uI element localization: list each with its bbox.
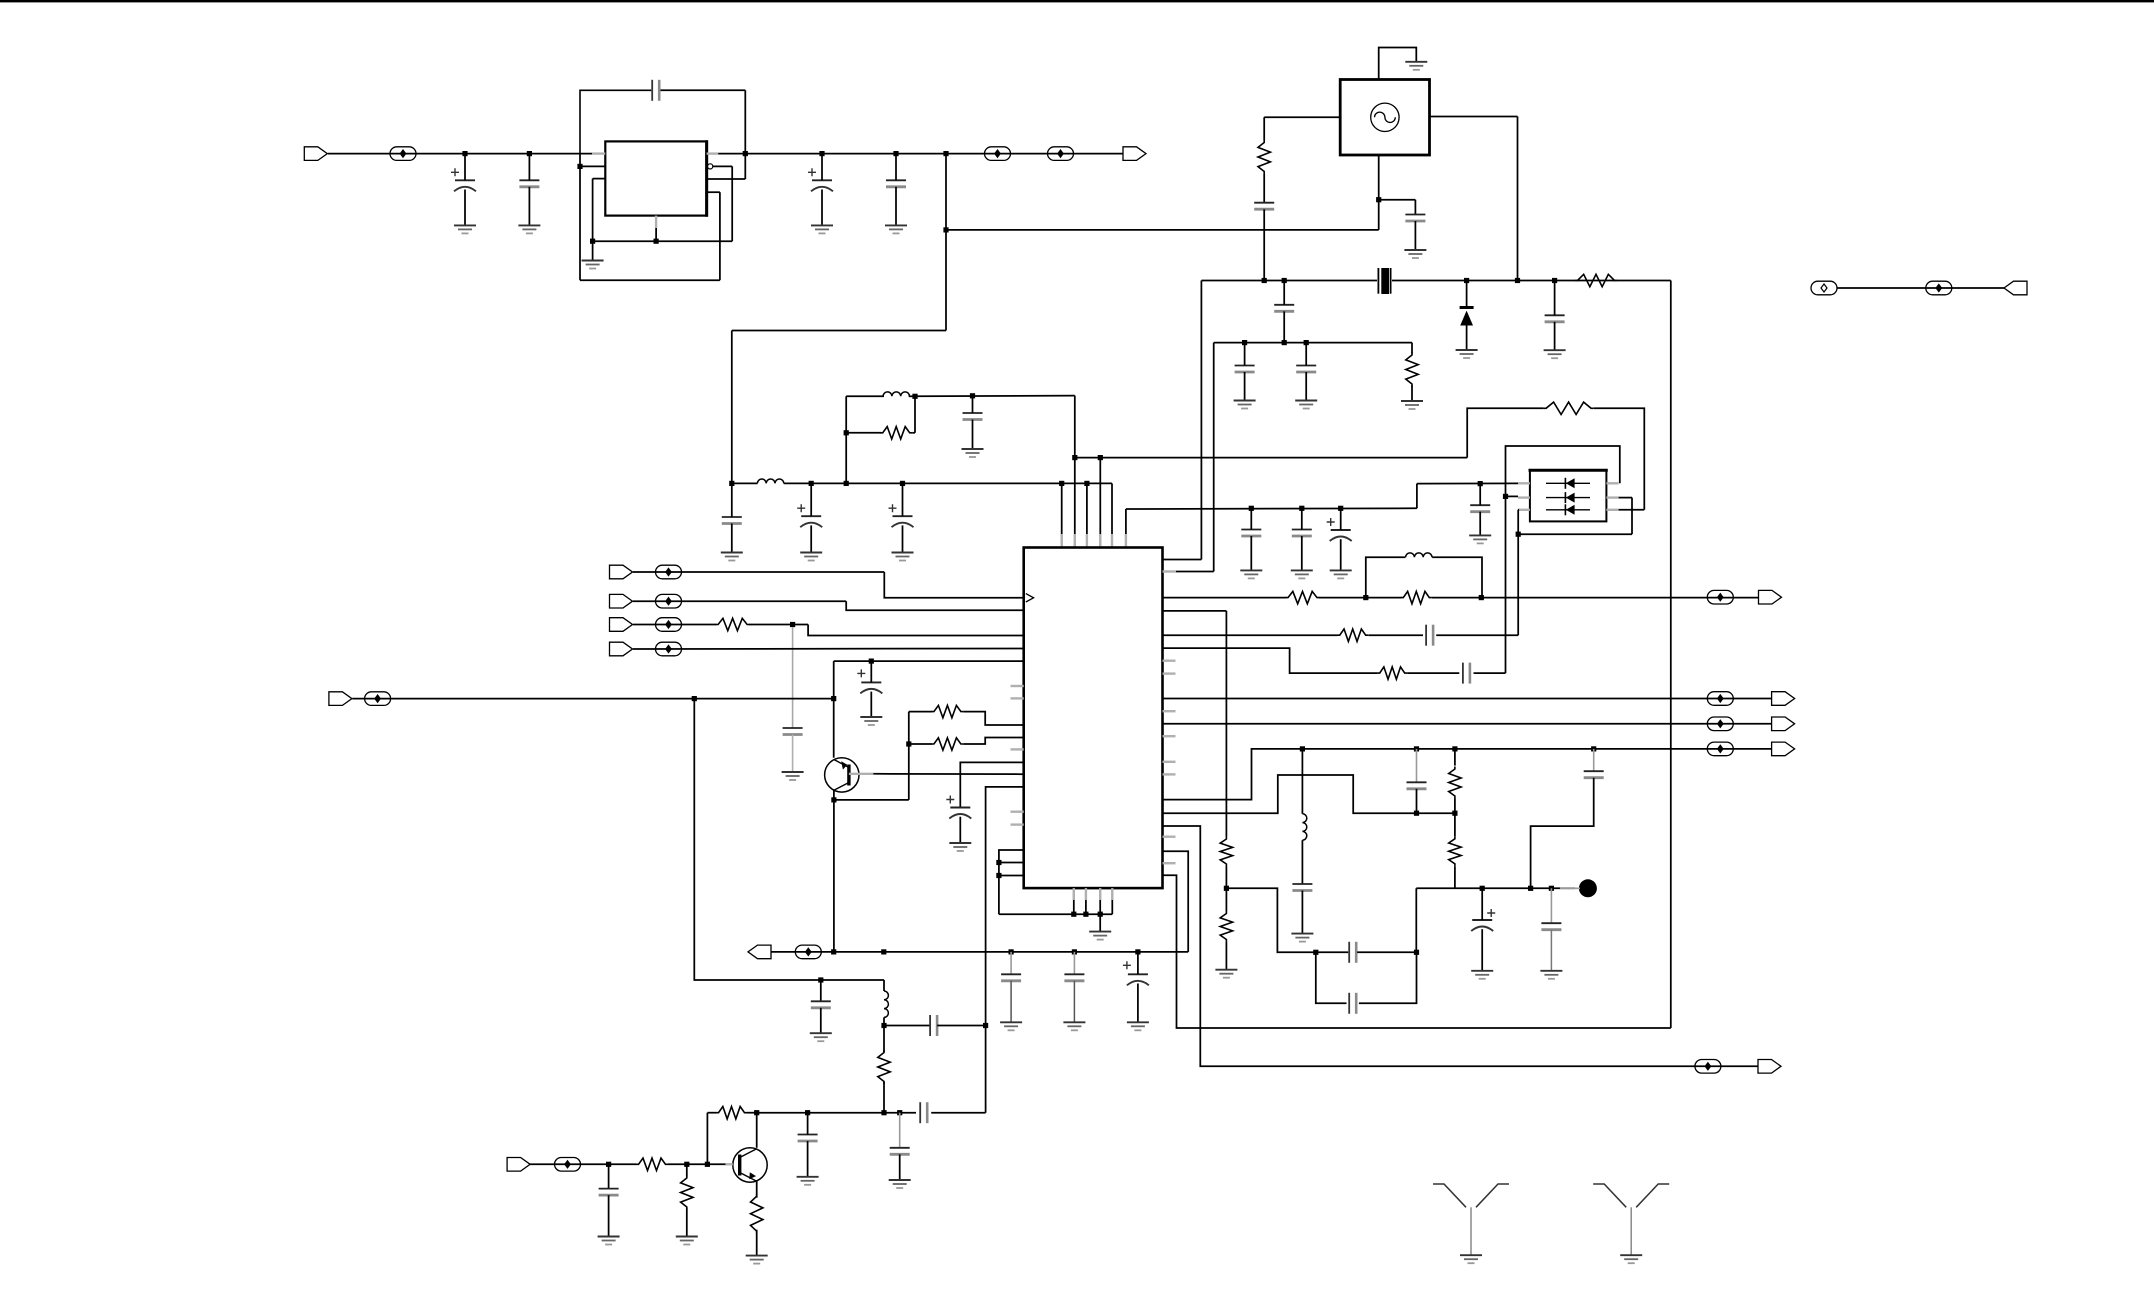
wire C2 up bbox=[528, 154, 530, 181]
connector IN1 bbox=[610, 565, 633, 579]
capacitor C27 (series) bbox=[930, 1015, 937, 1036]
IC top pin stub bbox=[1060, 534, 1062, 548]
node C11 bbox=[1299, 506, 1304, 511]
ground below C39 bbox=[1540, 971, 1562, 979]
wire netC step bbox=[1163, 648, 1378, 673]
node C4 bbox=[819, 151, 824, 156]
ground below C17 bbox=[1544, 350, 1566, 358]
node emitter bbox=[831, 797, 836, 802]
capacitor C14 bbox=[1254, 203, 1274, 210]
net label oval OUT2 bbox=[1707, 692, 1733, 706]
U1 clock input symbol bbox=[1026, 594, 1034, 602]
wire C18 up bbox=[1244, 343, 1246, 366]
node Q2 base fb bbox=[705, 1162, 710, 1167]
wire U1 bottom pin3 bbox=[1099, 888, 1101, 914]
wire U1 bottom pin1 bbox=[1073, 888, 1075, 914]
ground below C8 bbox=[721, 553, 743, 561]
node R12 top bbox=[684, 1162, 689, 1167]
ground below antenna bbox=[1460, 1255, 1482, 1263]
wire loop top right bbox=[660, 89, 745, 91]
wire netB lead bbox=[1163, 634, 1338, 636]
wire combo left vertical bbox=[845, 396, 847, 483]
U3 right pin stub bbox=[1606, 482, 1618, 484]
node C31 bbox=[606, 1162, 611, 1167]
wire C22 down bbox=[959, 817, 961, 843]
capacitor C20 bbox=[783, 728, 803, 735]
wire emitter feedback vertical bbox=[908, 712, 910, 800]
wire R2 to C14 bbox=[1263, 174, 1265, 203]
capacitor C13 bbox=[1470, 505, 1490, 512]
node C7 bbox=[900, 481, 905, 486]
wire C17 up bbox=[1554, 281, 1556, 316]
wire main top rail right bbox=[745, 153, 946, 155]
wire R12 up bbox=[686, 1164, 688, 1176]
capacitor C9 bbox=[963, 413, 983, 420]
wire C12 up bbox=[1340, 508, 1342, 530]
diode array U3 box bbox=[1530, 470, 1607, 521]
wire R11 to base bbox=[668, 1163, 726, 1165]
wire R13 down bbox=[756, 1230, 758, 1256]
connector main input bbox=[329, 692, 352, 706]
wire IN3 to R6 bbox=[633, 624, 717, 626]
capacitor C35 bbox=[1292, 884, 1312, 891]
node Q2 collector bbox=[754, 1110, 759, 1115]
node C12 bbox=[1338, 506, 1343, 511]
capacitor C37 (series) bbox=[1349, 942, 1356, 963]
wire Ucap left bbox=[1316, 952, 1347, 1003]
crystal X1 bbox=[1378, 268, 1390, 294]
wire C34 gray bbox=[1416, 749, 1418, 782]
net label oval OUT5 bbox=[1695, 1060, 1721, 1074]
connector OUT1 bbox=[1759, 590, 1782, 604]
wire netA to output bbox=[1432, 597, 1759, 599]
wire to ground bbox=[1099, 914, 1101, 931]
U1 left unconnected pin stub bbox=[1011, 697, 1024, 699]
wire osc left bbox=[1264, 116, 1340, 118]
node bpin2 bbox=[1083, 912, 1088, 917]
capacitor C39 bbox=[1541, 923, 1561, 930]
node L3 branch bbox=[881, 949, 886, 954]
ground below C24 bbox=[1063, 1022, 1085, 1030]
U3 left pin stub bbox=[1518, 509, 1530, 511]
resistor R11 bbox=[636, 1158, 668, 1170]
wire IN4 bbox=[633, 648, 1024, 651]
node combo2 left bbox=[1363, 595, 1368, 600]
wire net 408 right bbox=[1594, 408, 1645, 510]
node combo2 right bbox=[1479, 595, 1484, 600]
resistor R19b bbox=[1449, 836, 1461, 866]
node V2 top bbox=[1516, 532, 1521, 537]
ground below R13 bbox=[746, 1256, 768, 1264]
capacitor C21 (electrolytic) bbox=[857, 669, 882, 693]
ground below C9 bbox=[962, 449, 984, 457]
wire osc right down bbox=[1517, 117, 1519, 281]
connector J1 input (top-left) bbox=[304, 147, 327, 161]
node C36 top bbox=[1591, 746, 1596, 751]
wire OUT3 net bbox=[1163, 723, 1772, 725]
wire R2 top lead bbox=[1263, 117, 1265, 140]
wire pin3 down bbox=[592, 179, 594, 242]
node C28 bbox=[805, 1110, 810, 1115]
wire xtal1 down to IC pin bbox=[1200, 281, 1202, 560]
wire comb top bbox=[999, 850, 1024, 914]
wire net 457 bbox=[1075, 457, 1467, 459]
wire pin T2 upper vertical bbox=[1074, 396, 1076, 458]
wire C10 up bbox=[1250, 508, 1252, 529]
node T2 bbox=[1072, 455, 1077, 460]
node power branch bbox=[943, 151, 948, 156]
ground below C23 bbox=[1000, 1022, 1022, 1030]
capacitor C31 bbox=[599, 1189, 619, 1196]
wire to output connector bbox=[946, 153, 1123, 155]
wire netB mid bbox=[1368, 634, 1423, 636]
node R19 bottom bbox=[1452, 811, 1457, 816]
ground below C31 bbox=[598, 1237, 620, 1245]
wire long vertical right bbox=[1670, 281, 1672, 1029]
wire C35 down bbox=[1301, 891, 1303, 934]
wire botright lead bbox=[1619, 509, 1645, 511]
wire R21 down bbox=[1225, 942, 1227, 970]
node Ucap left bbox=[1313, 950, 1318, 955]
wire R19b bottom bbox=[1454, 866, 1456, 888]
top border bar bbox=[0, 0, 2154, 2]
node emitter tie bbox=[831, 949, 836, 954]
wire regulator feedback loop (top cap loop) bbox=[580, 90, 651, 153]
wire pin to OUT5 bbox=[1163, 826, 1759, 1066]
node C34 top bbox=[1414, 746, 1419, 751]
wire C28 up bbox=[807, 1113, 809, 1135]
node R9 bottom bbox=[881, 1110, 886, 1115]
capacitor C7 (electrolytic) bbox=[889, 504, 914, 527]
wire supply rail bbox=[784, 482, 1112, 484]
ground below C13 bbox=[1469, 535, 1491, 543]
U1 right unconnected pin stub bbox=[1163, 773, 1176, 775]
wire far-right net bbox=[1837, 287, 2004, 289]
wire net952 to U1 pin bbox=[1163, 851, 1189, 952]
node C21 bbox=[869, 659, 874, 664]
capacitor C10 bbox=[1241, 530, 1261, 537]
wire loop bottom bbox=[580, 279, 720, 281]
net label oval IN3 bbox=[656, 618, 682, 632]
node C10 bbox=[1249, 506, 1254, 511]
ground below R12 bbox=[676, 1237, 698, 1245]
wire comb bottom bbox=[999, 913, 1112, 915]
U2 inverted output bubble bbox=[708, 164, 713, 169]
ground below C20 bbox=[782, 772, 804, 780]
wire comb pin3 bbox=[999, 875, 1024, 877]
capacitor C28 bbox=[798, 1135, 818, 1142]
wire combo R lead bbox=[846, 432, 881, 434]
wire C25 up bbox=[1137, 952, 1139, 974]
main IC U1 bbox=[1024, 548, 1163, 889]
wire C8 up bbox=[731, 483, 733, 517]
wire R20 vertical bbox=[1225, 611, 1227, 837]
wire C21 down bbox=[870, 692, 872, 717]
ground below C11 bbox=[1291, 570, 1313, 578]
node C17 bbox=[1552, 278, 1557, 283]
Q2 base stub bbox=[726, 1163, 733, 1165]
wire C29 down bbox=[899, 1154, 901, 1180]
ground U2 bbox=[582, 261, 604, 269]
node T4 bbox=[1098, 455, 1103, 460]
wire net 508 bbox=[1126, 507, 1417, 510]
capacitor C36 bbox=[1584, 771, 1604, 778]
wire Q1 emitter bbox=[833, 790, 835, 800]
U1 left unconnected pin stub bbox=[1011, 748, 1024, 750]
resistor R15 bbox=[1401, 591, 1432, 603]
node C16 top bbox=[1282, 278, 1287, 283]
capacitor C23 bbox=[1001, 974, 1021, 981]
wire rail bbox=[732, 482, 758, 484]
connector OUT2 bbox=[1772, 692, 1795, 706]
U1 bottom pin stub bbox=[1099, 888, 1101, 900]
node main branch bbox=[692, 696, 697, 701]
wire net 343 bbox=[1214, 342, 1412, 344]
resistor R7 bbox=[931, 705, 963, 717]
capacitor C2 bbox=[519, 180, 539, 187]
node U2 bottom pin bbox=[654, 239, 659, 244]
U3 right pin stub bbox=[1606, 496, 1618, 498]
node pin2 left bbox=[577, 164, 582, 169]
wire net 395 to IC bbox=[915, 395, 1075, 398]
node R20/R21 bbox=[1224, 886, 1229, 891]
ground below C21 bbox=[860, 717, 882, 725]
wire R9 down bbox=[883, 1082, 885, 1113]
node rail left bbox=[729, 481, 734, 486]
ground below C18 bbox=[1234, 401, 1256, 409]
wire main net 952 bbox=[771, 951, 1188, 953]
node pin T1 bbox=[1059, 481, 1064, 486]
wire combo right vertical bbox=[914, 396, 916, 433]
wire C36 to net888 bbox=[1531, 778, 1594, 889]
net label oval OUT3 bbox=[1707, 717, 1733, 731]
ground below C29 bbox=[889, 1180, 911, 1188]
wire OUT4 net bbox=[1163, 749, 1772, 800]
resistor R16 bbox=[1337, 629, 1368, 641]
node C29 bbox=[897, 1110, 902, 1115]
Q1 base stub bbox=[849, 773, 873, 775]
node combo bbox=[844, 481, 849, 486]
wire U3 outer loop bbox=[1506, 446, 1620, 496]
wire C25 down bbox=[1137, 984, 1139, 1023]
wire step up bbox=[1416, 484, 1418, 509]
capacitor C40 (series) bbox=[1349, 993, 1356, 1014]
resistor R12 bbox=[681, 1176, 693, 1210]
wire C30 to x985 bbox=[931, 1112, 985, 1114]
U1 left unconnected pin stub bbox=[1011, 823, 1024, 825]
resistor R19a bbox=[1449, 767, 1461, 799]
node C18 bbox=[1242, 340, 1247, 345]
wire net813 step bbox=[1163, 775, 1455, 813]
wire fb right bbox=[747, 1112, 757, 1114]
wire V1 vertical bbox=[1505, 496, 1507, 673]
wire crystal net right bbox=[1392, 280, 1671, 282]
wire U3 mid-left pin bbox=[1506, 495, 1519, 497]
ground below C1 bbox=[454, 225, 476, 233]
diode D2 inside U3 bbox=[1546, 478, 1590, 489]
wire net 408 left bbox=[1467, 408, 1543, 457]
wire net down-left bbox=[732, 330, 946, 332]
wire loop left down bbox=[579, 154, 581, 281]
node C39 bbox=[1549, 886, 1554, 891]
resistor R5 bbox=[1544, 402, 1594, 414]
antenna bbox=[1593, 1184, 1669, 1255]
wire C6 up bbox=[810, 483, 812, 516]
capacitor C32 (series) bbox=[1426, 625, 1433, 646]
node C6 bbox=[809, 481, 814, 486]
wire main input net bbox=[352, 698, 833, 700]
capacitor C25 (electrolytic) bbox=[1123, 961, 1149, 985]
wire U1 to C22 bbox=[960, 762, 1023, 807]
U1 right unconnected pin stub bbox=[1163, 862, 1176, 864]
resistor R4 bbox=[1406, 353, 1418, 387]
wire osc top to ground bbox=[1379, 48, 1417, 80]
IC top pin stub bbox=[1086, 534, 1088, 548]
wire osc right bbox=[1430, 116, 1518, 118]
wire U2 pin2 bbox=[580, 165, 605, 167]
capacitor C30 (series) bbox=[920, 1102, 927, 1123]
wire C6 down bbox=[810, 525, 812, 552]
net label oval IN2 bbox=[656, 594, 682, 608]
U2 pin1 stub bbox=[592, 152, 605, 154]
wire pin T3 bbox=[1086, 483, 1088, 547]
wire emitter down to net952 bbox=[833, 800, 835, 952]
wire osc bottom down bbox=[1378, 155, 1380, 230]
wire C24 down bbox=[1073, 981, 1075, 1023]
U1 right unconnected pin stub bbox=[1163, 710, 1176, 712]
wire C38 up bbox=[1481, 888, 1483, 920]
wire xtal2 down to IC pin bbox=[1213, 343, 1215, 572]
wire C16 down bbox=[1283, 311, 1285, 342]
wire C15 up bbox=[1414, 200, 1416, 215]
wire pin to xtal2 bbox=[1163, 571, 1214, 573]
resistor R6 bbox=[716, 618, 750, 630]
wire L3 to R9 bbox=[883, 1017, 885, 1052]
diode D4 inside U3 bbox=[1546, 504, 1590, 515]
wire collector net bbox=[757, 1112, 916, 1114]
node C38 bbox=[1480, 886, 1485, 891]
ground below C4 bbox=[811, 225, 833, 233]
inductor L1 bbox=[757, 479, 783, 483]
ground below C22 bbox=[949, 843, 971, 851]
node bpin1 bbox=[1071, 912, 1076, 917]
wire C17 down bbox=[1554, 322, 1556, 350]
capacitor C26 bbox=[811, 1001, 831, 1008]
wire netC right bbox=[1474, 672, 1506, 674]
U1 right unconnected pin stub bbox=[1163, 660, 1176, 662]
wire combo top right bbox=[909, 395, 915, 397]
wire RF in bbox=[530, 1163, 637, 1165]
wire to C27 bbox=[884, 1025, 931, 1027]
U3 left pin stub bbox=[1518, 482, 1530, 484]
diode D3 inside U3 bbox=[1546, 492, 1590, 503]
wire Q1 base to U1 bbox=[873, 773, 1023, 775]
wire R19b top bbox=[1454, 813, 1456, 836]
capacitor C33 (series) bbox=[1463, 663, 1470, 684]
node LC branch bbox=[1300, 746, 1305, 751]
resistor R1 bbox=[880, 427, 912, 439]
wire C16 up bbox=[1283, 281, 1285, 305]
wire combo top left bbox=[846, 395, 884, 397]
node C25 bbox=[1135, 949, 1140, 954]
regulator right pin3 wire bbox=[707, 178, 745, 180]
ground below C25 bbox=[1127, 1022, 1149, 1030]
connector RF input bbox=[507, 1158, 530, 1172]
oscillator sine symbol bbox=[1371, 103, 1399, 131]
wire U3 botleft down bbox=[1517, 510, 1519, 534]
wire U1 bottom pin2 bbox=[1085, 888, 1087, 914]
resistor R8 bbox=[931, 738, 963, 750]
wire U1 pin to bottom amp bbox=[986, 787, 1024, 1113]
U1 bottom pin stub bbox=[1073, 888, 1075, 900]
ground below C35 bbox=[1291, 934, 1313, 942]
wire C21 up bbox=[870, 661, 872, 682]
wire D1 down bbox=[1466, 326, 1468, 351]
node C16 bot bbox=[1282, 340, 1287, 345]
IC top pin stub bbox=[1099, 534, 1101, 548]
wire R4 down bbox=[1411, 386, 1413, 402]
net label oval RF input bbox=[555, 1158, 581, 1172]
capacitor C17 bbox=[1545, 315, 1565, 322]
U1 bottom pin stub bbox=[1111, 888, 1113, 900]
capacitor C19 bbox=[1296, 366, 1316, 373]
ground below C19 bbox=[1295, 401, 1317, 409]
connector IN4 bbox=[610, 642, 633, 656]
ground below C10 bbox=[1240, 570, 1262, 578]
wire C38 down bbox=[1481, 929, 1483, 971]
wire pin to R20 chain bbox=[1163, 610, 1227, 612]
node C26 bbox=[818, 977, 823, 982]
antenna bbox=[1433, 1184, 1509, 1255]
wire IN2 bbox=[633, 600, 846, 602]
net label oval B bbox=[1048, 147, 1074, 161]
resistor R14 bbox=[1286, 591, 1320, 603]
wire R7 to U1 bbox=[963, 712, 1023, 725]
wire Ucap right bbox=[1359, 952, 1417, 1003]
wire netA bbox=[1319, 597, 1402, 599]
U1 right unconnected pin stub bbox=[1163, 836, 1176, 838]
wire net 229 horizontal bbox=[946, 229, 1379, 231]
wire C7 down bbox=[902, 525, 904, 552]
wire C31 up bbox=[608, 1164, 610, 1188]
wire IN2 step bbox=[846, 601, 1024, 610]
node R8 left bbox=[906, 741, 911, 746]
wire pin to net1028 bbox=[1163, 875, 1671, 1028]
capacitor C11 bbox=[1292, 530, 1312, 537]
node diode D1 bbox=[1464, 278, 1469, 283]
wire C5 up bbox=[895, 154, 897, 181]
wire C18 down bbox=[1244, 372, 1246, 401]
wire Q1 collector bbox=[833, 661, 835, 758]
inductor L2 bbox=[883, 392, 909, 396]
net label oval main input bbox=[365, 692, 391, 706]
net label oval IN1 bbox=[656, 565, 682, 579]
wire input branch down bbox=[694, 699, 884, 980]
U1 left unconnected pin stub bbox=[1011, 811, 1024, 813]
wire C9 up bbox=[972, 396, 974, 413]
inductor L4 bbox=[1406, 553, 1432, 557]
wire to dot gray bbox=[1560, 887, 1580, 889]
wire bubble out bbox=[713, 165, 732, 167]
node C19 bbox=[1304, 340, 1309, 345]
wire netA lead bbox=[1163, 597, 1287, 599]
wire combo2 right down bbox=[1432, 557, 1482, 597]
wire step to net952r bbox=[1226, 888, 1348, 952]
node mid branch bbox=[881, 1023, 886, 1028]
capacitor C5 bbox=[886, 180, 906, 187]
resistor R17 bbox=[1377, 667, 1407, 679]
wire C28 down bbox=[807, 1141, 809, 1177]
